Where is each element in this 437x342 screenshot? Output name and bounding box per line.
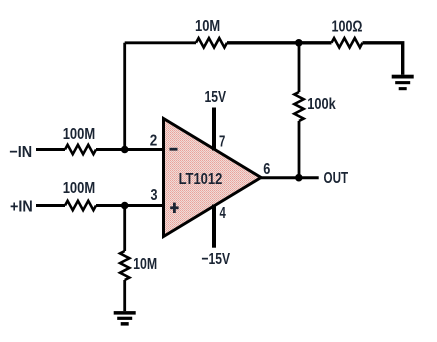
wire top right corner to ground	[363, 43, 403, 75]
wire +IN to pin3	[96, 204, 165, 207]
svg-text:2: 2	[150, 132, 158, 149]
ground right	[392, 75, 414, 91]
node junction -IN / feedback	[121, 146, 129, 154]
resistor R 10M top (feedback)	[196, 38, 227, 47]
wire supply +15V stub	[212, 108, 216, 151]
wire -IN lead	[36, 148, 65, 151]
wire supply -15V stub	[212, 205, 216, 248]
svg-text:100k: 100k	[307, 96, 336, 113]
wire output	[261, 176, 319, 179]
svg-text:−IN: −IN	[9, 144, 32, 161]
svg-text:100M: 100M	[63, 126, 95, 143]
node junction output / 100k	[295, 174, 303, 182]
svg-text:10M: 10M	[195, 18, 220, 35]
svg-text:10M: 10M	[133, 256, 157, 273]
wire +IN lead	[36, 204, 65, 207]
wire feedback top horizontal right segment	[227, 41, 332, 44]
wire 10M vertical upper	[123, 206, 126, 252]
wire feedback left vertical	[123, 43, 126, 150]
wire 100k vertical upper	[298, 43, 301, 92]
svg-text:OUT: OUT	[324, 170, 349, 187]
resistor R 10M (bottom)	[120, 251, 129, 280]
svg-text:4: 4	[220, 205, 226, 222]
svg-text:−15V: −15V	[202, 251, 231, 268]
ground bottom left	[114, 311, 136, 326]
svg-text:15V: 15V	[205, 89, 227, 106]
wire feedback top horizontal left segment	[125, 41, 196, 44]
minus input symbol	[170, 148, 178, 151]
resistor R 100M (-IN)	[65, 145, 96, 154]
resistor R 100M (+IN)	[65, 201, 96, 210]
svg-text:6: 6	[263, 161, 270, 178]
node junction +IN / 10M	[121, 202, 129, 210]
wire -IN to pin2	[96, 148, 165, 151]
op-amp U1 LT1012 triangle	[164, 119, 262, 237]
svg-text:100M: 100M	[63, 180, 95, 197]
wire 100k vertical lower	[298, 121, 301, 178]
svg-text:LT1012: LT1012	[179, 171, 223, 188]
node junction top (feedback/100k/output net)	[295, 39, 303, 47]
svg-text:3: 3	[151, 187, 158, 204]
svg-text:7: 7	[219, 134, 225, 151]
resistor R 100Ω	[332, 38, 363, 47]
plus input symbol	[170, 203, 178, 213]
svg-text:100Ω: 100Ω	[332, 18, 363, 35]
svg-text:+IN: +IN	[10, 199, 33, 216]
resistor R 100k	[294, 92, 303, 121]
wire 10M to ground	[123, 280, 126, 311]
